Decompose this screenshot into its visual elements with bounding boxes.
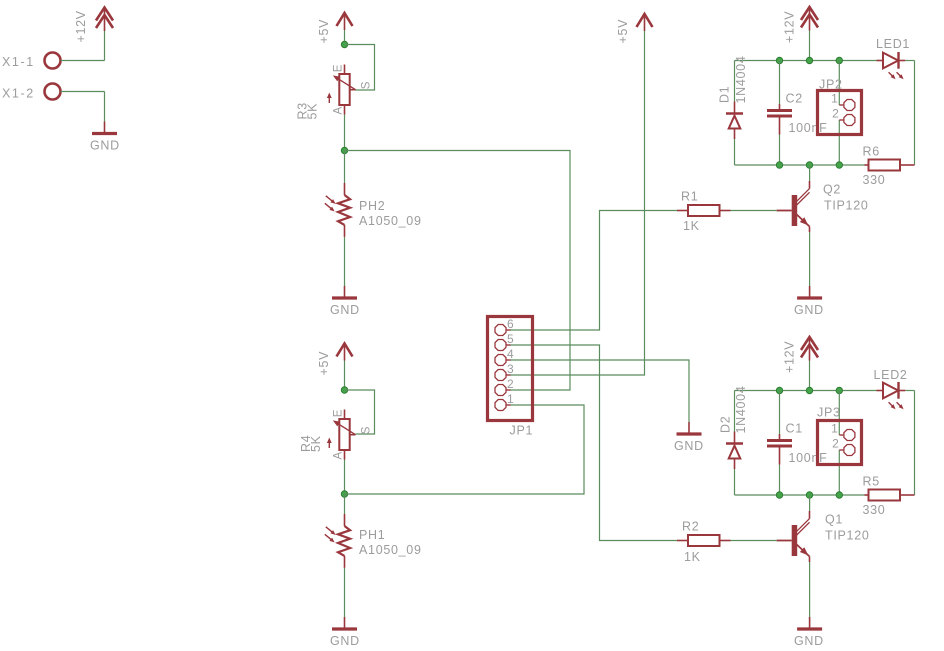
supply +12V symbol (top right): [801, 7, 818, 31]
svg-text:330: 330: [863, 173, 886, 187]
label GND (Q2): [794, 303, 824, 317]
wire LED1 to R6: [905, 61, 914, 166]
connector JP2: [818, 91, 862, 135]
svg-text:2: 2: [832, 107, 839, 121]
wire collector rail (top block): [735, 164, 865, 166]
wire R1 to Q2 base: [731, 210, 777, 212]
photoresistor PH1: [325, 514, 350, 568]
pin numbers 1-2 (JP2): [831, 92, 839, 121]
wire X1-2 to GND: [61, 92, 105, 122]
wire LED2 to R5: [905, 391, 914, 496]
label GND (PH1): [330, 634, 360, 648]
label +12V (top right): [783, 11, 797, 43]
svg-text:S: S: [361, 81, 373, 89]
wire X1-1 to +12V: [61, 29, 105, 61]
wire JP2 pin 1 to +12V rail: [838, 61, 840, 106]
svg-text:+5V: +5V: [616, 19, 630, 44]
LED LED2: [877, 382, 906, 409]
svg-text:3: 3: [507, 362, 514, 376]
resistor R6: [865, 160, 915, 171]
value A1050_09 (PH2): [359, 214, 422, 228]
svg-text:100nF: 100nF: [789, 121, 828, 135]
capacitor C1: [767, 391, 792, 496]
svg-text:GND: GND: [794, 634, 824, 648]
transistor Q2: [777, 181, 810, 232]
wire Q2 emitter to GND: [809, 232, 811, 286]
svg-text:A: A: [333, 106, 345, 114]
label D2: [719, 416, 733, 433]
value 1N4004 (D1): [734, 56, 748, 104]
svg-text:C1: C1: [786, 422, 803, 436]
label R2: [682, 520, 699, 534]
capacitor C2: [767, 61, 792, 166]
label LED1: [876, 37, 910, 51]
label R6: [863, 145, 880, 159]
label R4: [299, 435, 313, 452]
svg-text:S: S: [361, 426, 373, 434]
ground symbol (PH2): [332, 286, 357, 298]
wire S-loop R4: [345, 390, 375, 434]
label R3: [296, 102, 310, 119]
svg-text:GND: GND: [794, 303, 824, 317]
value 1K (R1): [683, 219, 700, 233]
value 330 (R6): [863, 173, 886, 187]
svg-text:JP3: JP3: [817, 406, 841, 420]
label X1-2: [2, 87, 35, 101]
junction nodes collector rail (bottom): [776, 492, 842, 498]
ground symbol (Q1): [797, 617, 822, 629]
pin numbers 6-1 (JP1): [507, 317, 514, 406]
wire node to PH2: [344, 151, 346, 184]
svg-text:X1-2: X1-2: [2, 87, 35, 101]
potentiometer R4: [327, 410, 356, 460]
wire PH2 to GND: [344, 237, 346, 286]
label PH1: [359, 528, 385, 542]
label Q1: [825, 513, 843, 527]
value TIP120 (Q2): [824, 199, 869, 213]
wire JP1 pin 6 to R1: [510, 211, 677, 331]
photoresistor PH2: [325, 183, 350, 237]
wire JP2 pin 2 to collector rail: [838, 120, 840, 165]
value TIP120 (Q1): [825, 529, 870, 543]
svg-text:D2: D2: [719, 416, 733, 433]
wire +12V rail (top): [735, 60, 877, 62]
svg-text:Q2: Q2: [823, 183, 841, 197]
connector pin X1-1: [45, 53, 61, 69]
junction nodes +12V rail (bottom): [776, 387, 842, 393]
supply +12V symbol (left): [96, 8, 113, 32]
svg-text:1: 1: [507, 392, 514, 406]
svg-text:1: 1: [831, 92, 838, 106]
svg-text:1N4004: 1N4004: [734, 386, 748, 434]
svg-text:GND: GND: [90, 139, 120, 153]
label +5V (JP1): [616, 19, 630, 44]
wire Q1 emitter to GND: [809, 562, 811, 617]
label PH2: [359, 199, 385, 213]
svg-text:R6: R6: [863, 145, 880, 159]
svg-text:1: 1: [831, 422, 838, 436]
supply +12V symbol (bottom right): [801, 337, 818, 361]
connector JP3: [818, 421, 862, 465]
svg-text:X1-1: X1-1: [2, 55, 35, 69]
wire JP1 pin 5 to R2: [510, 345, 677, 541]
svg-text:E: E: [333, 409, 345, 417]
supply +5V symbol (JP1): [637, 14, 653, 31]
wire +12V rail (bottom block): [735, 390, 877, 392]
svg-text:JP2: JP2: [819, 78, 843, 92]
svg-text:R2: R2: [682, 520, 699, 534]
svg-text:JP1: JP1: [510, 424, 534, 438]
label +12V (bottom right): [783, 341, 797, 373]
wire R3 to divider node: [344, 115, 346, 151]
ground symbol (X1): [92, 122, 117, 134]
svg-text:100nF: 100nF: [789, 451, 828, 465]
svg-text:5K: 5K: [309, 435, 323, 452]
LED LED1: [877, 52, 906, 79]
svg-text:A: A: [333, 451, 345, 459]
label R5: [863, 475, 880, 489]
label GND (X1): [90, 139, 120, 153]
svg-text:GND: GND: [330, 634, 360, 648]
svg-text:330: 330: [863, 503, 886, 517]
transistor Q1: [777, 511, 810, 562]
diode D2: [726, 391, 743, 496]
value 5K (R3): [306, 103, 320, 120]
svg-text:+12V: +12V: [74, 10, 88, 42]
wire node to PH1: [344, 494, 346, 514]
pin labels E/S/A (R3): [333, 64, 373, 115]
svg-text:1K: 1K: [683, 219, 700, 233]
label GND (JP1 pin 4): [674, 439, 704, 453]
pin labels E/S/A (R4): [333, 409, 373, 460]
svg-text:E: E: [333, 64, 345, 72]
svg-text:6: 6: [507, 317, 514, 331]
svg-text:GND: GND: [674, 439, 704, 453]
ground symbol (Q2): [797, 286, 822, 298]
label GND (PH2): [330, 303, 360, 317]
wire JP3 pin 2 to collector rail: [838, 450, 840, 495]
label GND (Q1): [794, 634, 824, 648]
pin numbers 1-2 (JP3): [831, 422, 839, 451]
svg-text:1K: 1K: [684, 550, 701, 564]
svg-text:+5V: +5V: [317, 351, 331, 376]
label JP3: [817, 406, 841, 420]
resistor R1: [677, 205, 731, 216]
wire JP1 pin 3 to +5V: [510, 31, 645, 375]
wire +12V to rail (bottom): [809, 361, 811, 391]
ground symbol (PH1): [332, 617, 357, 629]
value 100nF (C2): [789, 121, 828, 135]
svg-text:2: 2: [832, 437, 839, 451]
svg-text:LED1: LED1: [876, 37, 910, 51]
wire divider bottom to JP1 pin 1: [345, 405, 585, 494]
value 1N4004 (D2): [734, 386, 748, 434]
wire PH1 to GND: [344, 568, 346, 617]
label C2: [786, 92, 803, 106]
value 1K (R2): [684, 550, 701, 564]
label +12V (left): [74, 10, 88, 42]
svg-text:D1: D1: [718, 86, 732, 103]
label +5V (R3): [317, 19, 331, 44]
wire JP1 pin 4 to GND: [510, 360, 689, 422]
junction nodes +12V rail (top): [776, 57, 842, 63]
resistor R2: [677, 535, 731, 546]
svg-text:2: 2: [507, 377, 514, 391]
wire R2 to Q1 base: [731, 540, 777, 542]
junction node divider top: [341, 147, 347, 153]
svg-text:GND: GND: [330, 303, 360, 317]
svg-text:+5V: +5V: [317, 19, 331, 44]
value 330 (R5): [863, 503, 886, 517]
svg-text:Q1: Q1: [825, 513, 843, 527]
wire S-loop R3: [345, 45, 375, 91]
junction node R3 top: [341, 41, 347, 47]
value 100nF (C1): [789, 451, 828, 465]
junction nodes collector rail (top): [776, 162, 842, 168]
svg-text:LED2: LED2: [874, 368, 908, 382]
svg-text:5: 5: [507, 332, 514, 346]
value A1050_09 (PH1): [359, 543, 422, 557]
wire rail to Q1 collector: [809, 495, 811, 511]
svg-text:PH2: PH2: [359, 199, 385, 213]
junction node R4 top: [341, 387, 347, 393]
svg-text:TIP120: TIP120: [824, 199, 869, 213]
svg-text:+12V: +12V: [783, 11, 797, 43]
potentiometer R3: [327, 65, 356, 115]
junction node divider bottom: [341, 491, 347, 497]
supply +5V symbol (R4): [337, 344, 353, 361]
label D1: [718, 86, 732, 103]
svg-text:4: 4: [507, 347, 514, 361]
label JP2: [819, 78, 843, 92]
value 5K (R4): [309, 435, 323, 452]
wire collector rail (bottom block): [735, 494, 865, 496]
svg-text:C2: C2: [786, 92, 803, 106]
svg-text:A1050_09: A1050_09: [359, 543, 422, 557]
wire rail to Q2 collector: [809, 165, 811, 181]
svg-text:+12V: +12V: [783, 341, 797, 373]
diode D1: [726, 61, 743, 166]
wire +5V to R3 node: [344, 30, 346, 45]
wire R4 to divider node: [344, 460, 346, 495]
connector pin X1-2: [45, 84, 61, 100]
svg-text:A1050_09: A1050_09: [359, 214, 422, 228]
connector JP1: [488, 317, 533, 421]
label +5V (R4): [317, 351, 331, 376]
label LED2: [874, 368, 908, 382]
label X1-1: [2, 55, 35, 69]
label C1: [786, 422, 803, 436]
ground symbol (JP1 pin 4): [677, 422, 702, 434]
svg-text:PH1: PH1: [359, 528, 385, 542]
label JP1: [510, 424, 534, 438]
svg-text:TIP120: TIP120: [825, 529, 870, 543]
wire JP3 pin 1 to +12V rail: [838, 391, 840, 436]
wire +5V to R4 node: [344, 361, 346, 391]
svg-text:R5: R5: [863, 475, 880, 489]
svg-text:1N4004: 1N4004: [734, 56, 748, 104]
wire divider top to JP1 pin 2: [345, 151, 571, 391]
supply +5V symbol (R3): [337, 13, 353, 30]
label R1: [681, 190, 698, 204]
label Q2: [823, 183, 841, 197]
svg-text:R1: R1: [681, 190, 698, 204]
resistor R5: [865, 490, 915, 501]
svg-text:5K: 5K: [306, 103, 320, 120]
wire +12V to rail: [809, 31, 811, 61]
